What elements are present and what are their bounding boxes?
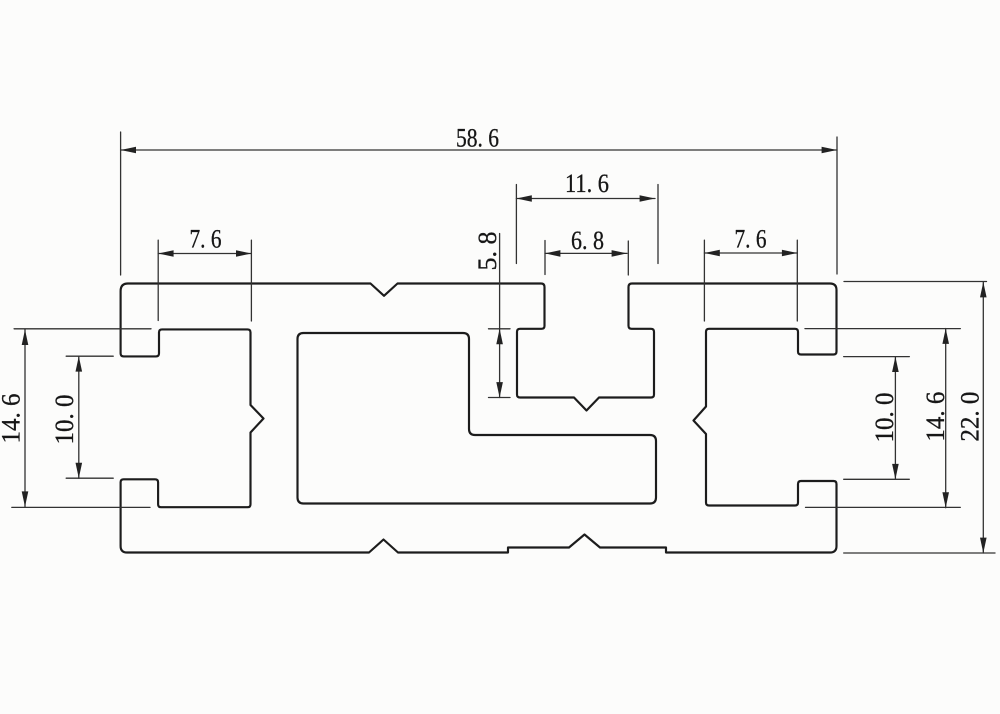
svg-text:6. 8: 6. 8 (571, 226, 604, 255)
svg-text:7. 6: 7. 6 (735, 225, 767, 254)
dim 22.0 extension line top (844, 281, 987, 283)
dim 7.6 right extension line right (796, 240, 798, 321)
dim 22.0 arrow up (980, 282, 987, 297)
dim 5.8 tick top (489, 328, 511, 330)
svg-text:7. 6: 7. 6 (190, 225, 222, 254)
svg-text:14. 6: 14. 6 (921, 392, 950, 442)
dim 22.0 arrow down (980, 538, 987, 553)
dim 7.6 right arrow left (704, 250, 719, 257)
svg-text:14. 6: 14. 6 (0, 394, 26, 444)
svg-text:5. 8: 5. 8 (473, 232, 502, 271)
dim 11.6 arrow left (516, 195, 531, 202)
dim 10.0 right arrow up (892, 357, 899, 372)
dim 7.6 right line (704, 252, 797, 254)
dim 14.6 left arrow up (22, 330, 29, 345)
dim 10.0 right line (894, 357, 896, 480)
svg-text:10. 0: 10. 0 (50, 395, 79, 445)
dim 5.8 tick bottom (489, 397, 511, 399)
dim 11.6 extension line right (657, 185, 659, 264)
dim 7.6 right extension line left (703, 240, 705, 321)
dim 10.0 left arrow down (76, 463, 83, 478)
dim 58.6 extension line left (120, 132, 122, 275)
dim 10.0 left extension line top (66, 355, 113, 357)
svg-text:22. 0: 22. 0 (955, 392, 984, 442)
dim 22.0 line (982, 282, 984, 553)
dim 14.6 right extension line bottom (806, 506, 961, 508)
dim 22.0 extension line bottom (844, 552, 995, 554)
dim 14.6 right arrow down (942, 492, 949, 507)
dim 14.6 right extension line top (805, 328, 960, 330)
dim 5.8 arrow up (496, 329, 503, 344)
svg-text:10. 0: 10. 0 (870, 393, 899, 443)
dim 14.6 left arrow down (22, 491, 29, 506)
svg-text:11. 6: 11. 6 (565, 169, 609, 198)
dim 7.6 left extension line left (157, 240, 159, 320)
dim 7.6 right arrow right (782, 250, 797, 257)
center cavity (298, 333, 657, 504)
dim 14.6 left line (24, 330, 26, 507)
dim 58.6 line (121, 149, 837, 151)
dim 11.6 extension line left (515, 185, 517, 264)
dim 6.8 arrow left (545, 250, 560, 257)
dim 5.8 arrow down (496, 382, 503, 397)
dim 10.0 left arrow up (76, 356, 83, 371)
dim 6.8 extension line left (544, 241, 546, 275)
dim 7.6 left extension line right (250, 240, 252, 321)
dim 11.6 line (516, 198, 655, 200)
dim 10.0 left extension line bottom (66, 477, 113, 479)
dim 10.0 right arrow down (892, 464, 899, 479)
dim 6.8 extension line right (627, 241, 629, 275)
dim 14.6 right arrow up (942, 329, 949, 344)
dim 10.0 left line (78, 356, 80, 478)
dim 10.0 right extension line top (844, 356, 910, 358)
dim 58.6 arrow right (822, 147, 837, 154)
dim 7.6 left line (158, 253, 251, 255)
svg-text:58. 6: 58. 6 (456, 124, 499, 153)
dim 14.6 right line (945, 329, 947, 508)
dim 14.6 left extension line top (14, 328, 151, 330)
dim 11.6 arrow right (640, 195, 655, 202)
dim 58.6 arrow left (121, 147, 136, 154)
dim 7.6 left arrow right (236, 250, 251, 257)
dim 14.6 left extension line bottom (12, 506, 150, 508)
dim 7.6 left arrow left (158, 250, 173, 257)
dim 6.8 arrow right (612, 250, 627, 257)
profile outline (121, 284, 837, 553)
dim 6.8 line (545, 252, 627, 254)
dim 58.6 extension line right (836, 137, 838, 274)
dim 10.0 right extension line bottom (844, 478, 910, 480)
dim 5.8 leader line (499, 234, 501, 398)
